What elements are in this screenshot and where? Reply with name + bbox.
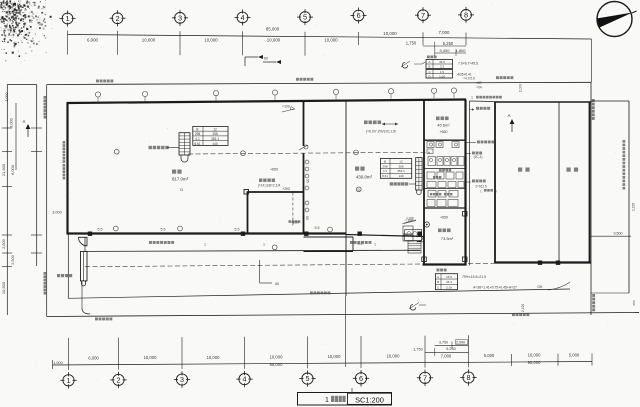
- svg-text:353.1: 353.1: [397, 169, 405, 173]
- platform step box: [304, 237, 354, 252]
- leader rail: [466, 180, 497, 194]
- office label: [438, 229, 454, 242]
- grid bubble 8 top: [461, 10, 472, 21]
- svg-text:430.0m²: 430.0m²: [356, 174, 373, 179]
- svg-text:45.6m²: 45.6m²: [437, 123, 450, 128]
- svg-text:298: 298: [382, 164, 387, 168]
- dashed canopy gap segment: [468, 263, 494, 265]
- grid bubble 2 bottom: [110, 372, 126, 388]
- inner line A bottom: [68, 289, 570, 298]
- svg-text:35.1: 35.1: [446, 280, 452, 284]
- north arrow compass: [597, 2, 637, 37]
- svg-text:5: 5: [306, 374, 310, 383]
- drain vert text: [623, 140, 626, 143]
- svg-text:9,500: 9,500: [614, 232, 623, 236]
- grid bubble 1 bottom: [60, 372, 76, 388]
- svg-text:55: 55: [305, 216, 309, 220]
- bottom dimension line and ticks: [53, 335, 593, 370]
- svg-text:+650: +650: [440, 215, 448, 219]
- svg-text:90,000: 90,000: [528, 360, 541, 365]
- dashed canopy line y265: [85, 264, 422, 267]
- svg-text:B: B: [429, 65, 431, 69]
- small pillar note: [289, 220, 292, 223]
- svg-text:+293: +293: [282, 187, 290, 191]
- site boundary right label: [592, 99, 595, 102]
- fire compartment corner column: [244, 190, 249, 195]
- thin vertical with foot hook: [82, 282, 90, 314]
- platform label 1: [149, 241, 152, 244]
- svg-text:1: 1: [65, 14, 69, 23]
- svg-text:7: 7: [423, 373, 427, 382]
- svg-text:3.3: 3.3: [440, 65, 444, 69]
- phase-1 boundary label bottom: [44, 272, 47, 275]
- svg-text:5.5: 5.5: [235, 228, 240, 232]
- fire compartment label mid: [364, 121, 398, 126]
- grid bubble 4 bottom: [236, 371, 252, 387]
- svg-text:=57: =57: [476, 81, 482, 85]
- fire compartment label 2: [259, 179, 262, 182]
- svg-text:SC1:200: SC1:200: [355, 395, 384, 404]
- fire compartment room top wall: [247, 191, 304, 193]
- svg-text:10,000: 10,000: [324, 38, 338, 43]
- svg-text:21,500: 21,500: [1, 163, 6, 176]
- nested bottom dims: [413, 340, 468, 356]
- platform small marks: [204, 243, 376, 247]
- svg-text:1: 1: [67, 376, 71, 385]
- svg-text:+650: +650: [439, 130, 447, 134]
- svg-text:12: 12: [399, 159, 403, 163]
- phase-1 boundary label top: [44, 96, 47, 99]
- left dimension column: [1, 85, 42, 316]
- vent note dots: [476, 81, 482, 90]
- svg-text:): ): [495, 189, 496, 193]
- small span labels above bottom wall: [98, 226, 363, 246]
- grid bubble 6 bottom: [353, 370, 369, 386]
- svg-text:45.6: 45.6: [439, 60, 445, 64]
- entry circle mark: [424, 222, 429, 227]
- svg-text:10,000: 10,000: [142, 38, 156, 43]
- svg-text:3,000: 3,000: [52, 211, 62, 215]
- svg-text:55: 55: [306, 179, 310, 183]
- right building top wall: [494, 101, 591, 103]
- grid bubble 2 top: [112, 13, 123, 24]
- title kanji blobs: [331, 396, 334, 402]
- grid bubble 5 bottom: [299, 370, 315, 386]
- svg-text:8.61: 8.61: [194, 142, 200, 146]
- bottom dim labels: [53, 352, 580, 367]
- svg-text:2=911.5: 2=911.5: [475, 185, 487, 189]
- svg-text:85,000: 85,000: [266, 27, 280, 32]
- leader fire ext: [466, 141, 494, 144]
- svg-text:3,750: 3,750: [439, 340, 448, 344]
- trash area label: [57, 274, 60, 277]
- svg-text:12: 12: [213, 127, 217, 131]
- svg-text:358: 358: [212, 132, 218, 136]
- title scale box: [348, 393, 392, 404]
- svg-text:6: 6: [356, 11, 360, 20]
- svg-text:8: 8: [467, 373, 471, 382]
- svg-text:1: 1: [465, 108, 467, 112]
- svg-text:10,000: 10,000: [207, 355, 220, 360]
- svg-text:6,000: 6,000: [87, 38, 99, 43]
- site boundary top: [47, 82, 591, 84]
- svg-text:2,100: 2,100: [632, 203, 636, 211]
- svg-text:3,000: 3,000: [10, 118, 14, 128]
- label on line A: [310, 292, 313, 295]
- svg-text:6,000: 6,000: [88, 356, 99, 361]
- svg-text:A: A: [23, 119, 26, 124]
- top dim labels left: [87, 38, 338, 43]
- svg-text:1,750: 1,750: [406, 41, 417, 46]
- svg-text:4: 4: [240, 13, 244, 22]
- svg-text:1: 1: [374, 243, 376, 247]
- office right wall thin outer: [469, 101, 471, 266]
- svg-text:10,000: 10,000: [144, 355, 157, 360]
- meeting room bottom wall: [424, 139, 466, 141]
- platform edge line: [85, 250, 420, 251]
- svg-text:1.00: 1.00: [439, 74, 445, 78]
- svg-text:2,000: 2,000: [519, 84, 523, 93]
- thin line below warehouse corner: [67, 234, 69, 298]
- scan noise blob: [0, 0, 52, 61]
- svg-text:817.0m²: 817.0m²: [172, 177, 189, 182]
- svg-text:1,000: 1,000: [5, 93, 9, 102]
- centerline mark C top: [401, 61, 410, 68]
- title block frame: [298, 393, 392, 406]
- svg-text:5,250: 5,250: [446, 347, 456, 351]
- right building inner vertical x559: [558, 102, 560, 263]
- svg-text:650: 650: [632, 300, 636, 305]
- GL flag mark 2: [263, 60, 281, 64]
- svg-text:65,000: 65,000: [270, 362, 283, 367]
- svg-text:(=6.0/7.2%/3.0).1.5/: (=6.0/7.2%/3.0).1.5/: [366, 130, 396, 134]
- svg-text:60: 60: [264, 57, 268, 61]
- interior fire wall x303 upper: [303, 102, 305, 147]
- section mark A left: [23, 119, 31, 137]
- V100 mark b: [404, 217, 416, 224]
- svg-text:1: 1: [204, 243, 206, 247]
- grid bubble 6 top: [353, 10, 364, 21]
- svg-text:A: A: [437, 275, 439, 279]
- right bldg room label 2: [567, 168, 571, 172]
- fire hydrant label left: [149, 146, 152, 149]
- room label warehouse2: [355, 167, 373, 180]
- fire hydrant leader left: [167, 147, 179, 149]
- grid bubble 3 bottom: [174, 371, 190, 387]
- svg-text:10,000: 10,000: [204, 38, 218, 43]
- svg-text:73.5m²: 73.5m²: [441, 236, 454, 241]
- water tank boxes: [403, 226, 417, 241]
- svg-text:=4.7/2.6: =4.7/2.6: [463, 77, 475, 81]
- site boundary bottom label 1: [95, 318, 98, 321]
- svg-text:7,000: 7,000: [439, 30, 451, 35]
- svg-text:2,500: 2,500: [2, 239, 6, 249]
- fire legend table mid: [380, 159, 411, 179]
- stair ladder mid: [416, 158, 422, 195]
- svg-text:5.5: 5.5: [98, 228, 103, 232]
- fire hydrant label mid: [390, 182, 416, 185]
- office bottom wall: [423, 263, 467, 265]
- vent table title: [427, 56, 430, 59]
- top wall gap line x466-494: [470, 100, 495, 103]
- smoke calc table: [435, 274, 457, 290]
- V100 mark a: [282, 105, 295, 113]
- column bubbles above top wall: [95, 88, 456, 102]
- fire compartment room left wall: [247, 192, 249, 234]
- svg-text:10,500: 10,500: [1, 281, 6, 294]
- drain dim line: [591, 235, 631, 237]
- dashed center line y153: [188, 152, 430, 154]
- grid bubble 5 top: [300, 12, 311, 23]
- warehouse bottom wall left: [67, 232, 347, 234]
- svg-text:3,450: 3,450: [439, 48, 450, 53]
- svg-text:+650: +650: [270, 168, 278, 172]
- svg-text:=04: =04: [476, 86, 482, 90]
- top dimension line with grid ticks: [68, 31, 592, 83]
- meeting room label: [436, 117, 450, 135]
- svg-text:2,900: 2,900: [456, 340, 465, 344]
- svg-text:C: C: [428, 70, 430, 74]
- platform left end: [84, 238, 86, 252]
- svg-text:4: 4: [243, 375, 247, 384]
- svg-text:2: 2: [117, 376, 121, 385]
- column marks bottom walls: [88, 232, 560, 265]
- svg-text:298: 298: [195, 132, 201, 136]
- drain structure top line: [591, 100, 629, 102]
- office corner columns: [422, 212, 467, 262]
- vent calc tables top-right: [426, 60, 453, 79]
- marks along fire wall: [305, 160, 310, 220]
- right building right wall: [589, 102, 591, 263]
- grid bubble 8 bottom: [460, 369, 476, 385]
- svg-text:1: 1: [263, 243, 265, 247]
- stair ladder left: [179, 133, 190, 162]
- leader hook line A: [548, 282, 570, 290]
- svg-text:2: 2: [115, 14, 119, 23]
- svg-text:1,000: 1,000: [53, 361, 63, 365]
- nested top-right dims: [406, 41, 467, 57]
- svg-text:B: B: [437, 280, 439, 284]
- svg-text:1: 1: [325, 397, 329, 404]
- dashed vertical in fire room: [292, 193, 294, 227]
- svg-text:10,000: 10,000: [387, 354, 400, 359]
- wall-side vertical label a: [63, 141, 66, 144]
- site boundary bottom label 2: [512, 313, 515, 316]
- svg-text:5,000: 5,000: [569, 352, 580, 357]
- left horizontal tie at top: [7, 84, 36, 86]
- svg-text:6,000: 6,000: [10, 164, 15, 175]
- svg-text:6: 6: [359, 374, 363, 383]
- svg-text:1,750: 1,750: [413, 347, 423, 351]
- door gap symbol at x303: [299, 145, 308, 150]
- svg-text:5,000: 5,000: [484, 353, 495, 358]
- svg-text:79%×15.5=21.5: 79%×15.5=21.5: [462, 275, 486, 279]
- office right wall: [464, 100, 466, 266]
- svg-text:A: A: [508, 113, 511, 118]
- platform label 2: [350, 241, 353, 244]
- svg-text:10,000: 10,000: [328, 354, 341, 359]
- svg-text:7: 7: [421, 11, 425, 20]
- door swing bottom-left: [79, 237, 88, 246]
- svg-text:10,000: 10,000: [528, 353, 541, 358]
- svg-text:2.19: 2.19: [446, 285, 452, 289]
- site boundary right label 2: [592, 294, 595, 297]
- svg-text:4.1: 4.1: [195, 137, 200, 141]
- svg-text:2,500: 2,500: [11, 255, 15, 265]
- vertical x346 extension to dims: [345, 296, 347, 367]
- svg-text:2,100: 2,100: [521, 304, 525, 312]
- room label warehouse: [172, 170, 189, 182]
- svg-text:140: 140: [212, 142, 218, 146]
- grid bubble 1 top: [62, 13, 73, 24]
- svg-text:(=14.)1/8=2.1/4: (=14.)1/8=2.1/4: [258, 184, 281, 188]
- note above right bldg: [471, 96, 502, 100]
- svg-text:8.61: 8.61: [382, 174, 388, 178]
- leader to table: [414, 62, 425, 64]
- interior wall x424: [423, 101, 425, 266]
- svg-text:140: 140: [398, 174, 403, 178]
- warehouse left wall: [66, 103, 68, 234]
- site boundary top label 2: [296, 78, 299, 81]
- interior fire wall x303 lower: [303, 153, 305, 234]
- right small line y293: [591, 292, 629, 294]
- svg-text:5.5: 5.5: [161, 228, 166, 232]
- svg-text:60: 60: [275, 282, 279, 286]
- trash area ladder: [81, 251, 88, 286]
- right bldg room label 1: [518, 168, 522, 172]
- right building left wall: [494, 102, 496, 263]
- site boundary right: [590, 82, 592, 315]
- leader wc: [466, 152, 482, 160]
- svg-text:3: 3: [178, 13, 182, 22]
- misc small circle marks: [113, 149, 361, 249]
- svg-text:3: 3: [180, 375, 184, 384]
- drain structure right wall: [628, 101, 630, 293]
- interior vertical x346: [345, 101, 347, 296]
- svg-text:4.1: 4.1: [383, 169, 388, 173]
- site boundary top label 3: [496, 76, 499, 79]
- svg-text:7.0×6.7=45.5: 7.0×6.7=45.5: [458, 62, 478, 66]
- svg-text:5,250: 5,250: [443, 41, 454, 46]
- svg-text:=100: =100: [282, 105, 290, 109]
- svg-text:B: B: [196, 127, 198, 131]
- office door arc: [417, 234, 424, 241]
- entrance vestibule: [405, 230, 422, 254]
- grid bubble 4 top: [237, 12, 248, 23]
- svg-text:10,000: 10,000: [270, 354, 283, 359]
- svg-text:5: 5: [303, 13, 307, 22]
- fire legend table left: [193, 126, 228, 145]
- mid bottom wall segment: [346, 235, 424, 237]
- svg-text:1,800: 1,800: [455, 48, 466, 53]
- grid bubble 7 top: [418, 10, 429, 21]
- grating note: [465, 107, 490, 112]
- svg-text:15.5: 15.5: [446, 275, 452, 279]
- right building bottom wall: [494, 261, 591, 263]
- svg-text:8: 8: [464, 11, 468, 20]
- svg-text:A: A: [429, 60, 431, 64]
- svg-text:10,000: 10,000: [383, 31, 397, 36]
- svg-text:1.5: 1.5: [440, 70, 444, 74]
- smoke table title: [437, 269, 440, 272]
- svg-text:5.5: 5.5: [315, 226, 320, 230]
- phase-1 work boundary vertical line: [46, 85, 48, 317]
- entrance arrow note: [402, 219, 416, 225]
- site boundary top label 1: [96, 80, 99, 83]
- section mark A right: [508, 113, 515, 132]
- wall-side vertical label b: [63, 164, 66, 167]
- svg-text:10,000: 10,000: [267, 38, 281, 43]
- svg-text:1: 1: [471, 96, 473, 100]
- warehouse top wall: [67, 100, 467, 104]
- svg-text:D: D: [180, 188, 183, 192]
- site boundary bottom: [47, 313, 639, 317]
- grid bubble 3 top: [175, 12, 186, 23]
- svg-text:D: D: [428, 74, 430, 78]
- svg-text:(2C.1): (2C.1): [474, 155, 483, 159]
- svg-text:358: 358: [398, 164, 403, 168]
- stray mark above title: [351, 388, 353, 392]
- svg-text:353.1: 353.1: [211, 137, 219, 141]
- svg-text:7,000: 7,000: [441, 353, 452, 358]
- toilet fixtures block: [424, 142, 466, 209]
- svg-text:OK: OK: [537, 285, 543, 289]
- svg-text:A=36=1.41×0.75+0.45+A=27: A=36=1.41×0.75+0.45+A=27: [473, 286, 517, 290]
- svg-text:B: B: [384, 159, 386, 163]
- svg-text:=100: =100: [405, 219, 412, 223]
- GL flag mark top: [245, 55, 268, 66]
- small labels in toilets: [430, 169, 452, 196]
- centerline mark C bottom: [409, 303, 426, 311]
- grid bubble 7 bottom: [417, 370, 433, 386]
- corner leader 60: [260, 260, 279, 286]
